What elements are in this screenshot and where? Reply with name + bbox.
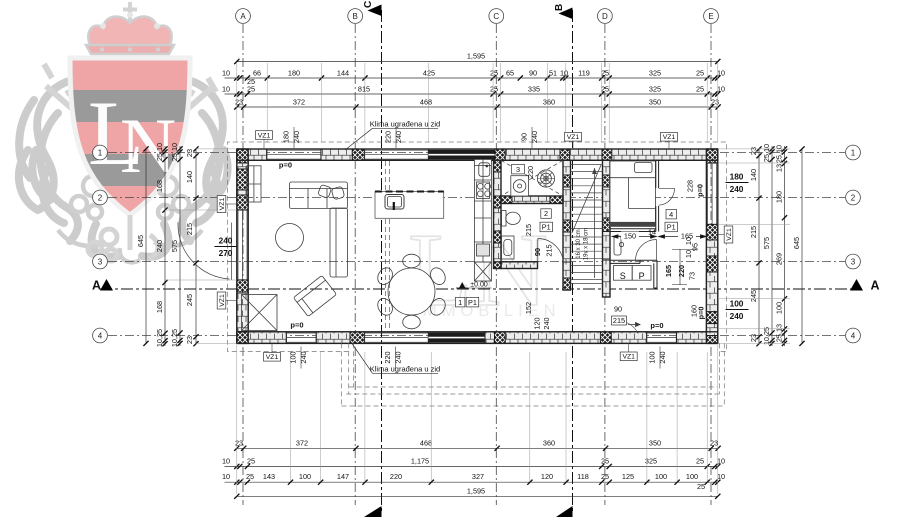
svg-text:180: 180	[730, 172, 744, 182]
svg-text:100: 100	[289, 351, 298, 363]
svg-text:10: 10	[222, 472, 230, 481]
svg-text:10: 10	[717, 69, 725, 78]
svg-text:215: 215	[613, 316, 625, 325]
svg-text:C: C	[363, 1, 374, 8]
svg-text:2: 2	[98, 194, 103, 203]
svg-text:25: 25	[601, 456, 609, 465]
svg-text:1,175: 1,175	[411, 456, 429, 465]
svg-text:815: 815	[358, 85, 370, 94]
svg-text:3: 3	[98, 258, 103, 267]
svg-text:23: 23	[749, 147, 758, 155]
svg-text:p=0: p=0	[696, 184, 705, 197]
svg-text:25: 25	[696, 85, 704, 94]
svg-text:220: 220	[384, 131, 393, 143]
svg-text:4: 4	[98, 332, 103, 341]
svg-text:180: 180	[282, 131, 291, 143]
svg-text:25: 25	[696, 456, 704, 465]
svg-text:23: 23	[185, 336, 194, 344]
svg-text:1,595: 1,595	[467, 52, 485, 61]
svg-text:14: 14	[648, 228, 656, 237]
svg-text:D: D	[602, 12, 608, 21]
svg-text:A: A	[871, 279, 880, 293]
svg-text:350: 350	[649, 438, 661, 447]
svg-text:325: 325	[649, 69, 661, 78]
svg-text:25,10: 25,10	[775, 145, 784, 163]
svg-text:645: 645	[792, 237, 801, 249]
svg-text:360: 360	[543, 438, 555, 447]
svg-text:575: 575	[762, 237, 771, 249]
svg-text:468: 468	[420, 98, 432, 107]
svg-text:65: 65	[506, 69, 514, 78]
svg-text:143: 143	[263, 472, 275, 481]
svg-text:4: 4	[669, 210, 673, 219]
svg-text:19v x 18 cm: 19v x 18 cm	[584, 228, 590, 260]
svg-text:VZ1: VZ1	[726, 228, 733, 241]
svg-text:p=0: p=0	[650, 321, 663, 330]
svg-text:VZ1: VZ1	[219, 198, 226, 211]
svg-text:51: 51	[549, 69, 557, 78]
svg-text:1: 1	[458, 298, 462, 307]
svg-text:165: 165	[664, 265, 673, 277]
svg-text:220: 220	[390, 472, 402, 481]
svg-text:N: N	[120, 102, 176, 189]
svg-text:245: 245	[749, 290, 758, 302]
svg-text:425: 425	[423, 69, 435, 78]
svg-text:335: 335	[528, 85, 540, 94]
svg-text:245: 245	[185, 294, 194, 306]
svg-text:10: 10	[684, 250, 693, 258]
svg-text:228: 228	[685, 180, 694, 192]
svg-text:±0.00: ±0.00	[470, 282, 488, 289]
svg-text:240: 240	[394, 131, 403, 143]
svg-text:3: 3	[516, 165, 520, 174]
svg-text:240: 240	[299, 351, 308, 363]
svg-text:4: 4	[851, 332, 856, 341]
svg-text:220: 220	[677, 265, 686, 277]
svg-text:P1: P1	[542, 223, 551, 232]
svg-text:10,25: 10,25	[762, 327, 771, 345]
svg-text:468: 468	[420, 438, 432, 447]
svg-text:240: 240	[730, 311, 744, 321]
svg-text:125: 125	[622, 472, 634, 481]
svg-text:100: 100	[686, 472, 698, 481]
svg-text:C: C	[493, 12, 499, 21]
svg-text:A: A	[92, 279, 101, 293]
svg-text:215: 215	[524, 224, 533, 236]
svg-text:10: 10	[717, 472, 725, 481]
svg-text:25: 25	[601, 472, 609, 481]
svg-text:VZ1: VZ1	[219, 294, 226, 307]
svg-text:P: P	[639, 271, 645, 281]
svg-text:25: 25	[490, 85, 498, 94]
svg-text:100: 100	[299, 472, 311, 481]
svg-text:10: 10	[717, 456, 725, 465]
svg-text:372: 372	[296, 438, 308, 447]
svg-text:p=0: p=0	[279, 161, 292, 170]
svg-text:10: 10	[684, 237, 693, 245]
svg-text:23: 23	[235, 98, 243, 107]
svg-text:119: 119	[578, 69, 590, 78]
svg-text:180: 180	[775, 191, 784, 203]
svg-text:100: 100	[655, 472, 667, 481]
svg-text:10,25: 10,25	[155, 329, 164, 347]
svg-text:100: 100	[775, 302, 784, 314]
svg-text:100: 100	[648, 351, 657, 363]
svg-text:269: 269	[775, 253, 784, 265]
svg-text:575: 575	[170, 240, 179, 252]
svg-text:152: 152	[524, 302, 533, 314]
svg-text:VZ1: VZ1	[567, 134, 580, 141]
svg-text:215: 215	[749, 226, 758, 238]
svg-text:90: 90	[533, 248, 542, 256]
svg-text:10: 10	[560, 69, 568, 78]
svg-text:P1: P1	[667, 223, 676, 232]
svg-text:23: 23	[749, 334, 758, 342]
svg-text:16 x 30 cm: 16 x 30 cm	[576, 229, 582, 258]
svg-text:25: 25	[247, 456, 255, 465]
svg-text:25: 25	[247, 85, 255, 94]
svg-text:90: 90	[520, 133, 529, 141]
svg-text:25: 25	[601, 69, 609, 78]
svg-text:100: 100	[730, 299, 744, 309]
svg-text:VZ1: VZ1	[258, 132, 271, 139]
svg-text:140: 140	[749, 169, 758, 181]
svg-text:25,10: 25,10	[762, 144, 771, 162]
svg-text:25: 25	[246, 472, 254, 481]
svg-text:23: 23	[185, 149, 194, 157]
svg-text:215: 215	[545, 244, 554, 256]
svg-text:220: 220	[526, 166, 535, 178]
svg-text:25,10: 25,10	[170, 143, 179, 161]
svg-text:168: 168	[155, 180, 164, 192]
svg-text:1,595: 1,595	[467, 486, 485, 495]
svg-text:327: 327	[472, 472, 484, 481]
svg-text:25: 25	[697, 482, 705, 491]
svg-text:23: 23	[710, 438, 718, 447]
svg-text:E: E	[708, 12, 713, 21]
svg-text:P1: P1	[468, 298, 477, 307]
svg-text:220: 220	[383, 351, 392, 363]
svg-text:A: A	[240, 12, 246, 21]
svg-text:270: 270	[219, 248, 233, 258]
svg-text:B: B	[554, 4, 565, 11]
svg-text:VZ1: VZ1	[266, 354, 279, 361]
svg-text:160: 160	[690, 305, 699, 317]
svg-text:120: 120	[541, 472, 553, 481]
svg-text:p=0: p=0	[290, 321, 303, 330]
svg-text:240: 240	[394, 351, 403, 363]
svg-text:10: 10	[222, 69, 230, 78]
svg-text:240: 240	[530, 131, 539, 143]
svg-text:240: 240	[155, 240, 164, 252]
svg-text:118: 118	[577, 472, 589, 481]
svg-text:13: 13	[775, 164, 784, 172]
svg-text:1: 1	[98, 149, 103, 158]
svg-text:168: 168	[155, 301, 164, 313]
svg-text:VZ1: VZ1	[622, 354, 635, 361]
svg-text:240: 240	[658, 351, 667, 363]
svg-text:25,10: 25,10	[155, 143, 164, 161]
svg-text:240: 240	[730, 184, 744, 194]
svg-text:10: 10	[222, 456, 230, 465]
svg-text:23: 23	[235, 438, 243, 447]
svg-text:IMMOBILIEN: IMMOBILIEN	[413, 302, 560, 320]
svg-text:10: 10	[222, 85, 230, 94]
svg-text:147: 147	[337, 472, 349, 481]
svg-text:90: 90	[529, 69, 537, 78]
svg-text:180: 180	[288, 69, 300, 78]
svg-text:25: 25	[696, 69, 704, 78]
svg-text:2: 2	[851, 194, 856, 203]
svg-text:150: 150	[624, 232, 636, 241]
svg-text:10,25: 10,25	[170, 329, 179, 347]
svg-text:215: 215	[185, 223, 194, 235]
svg-text:144: 144	[337, 69, 349, 78]
svg-text:90: 90	[614, 305, 622, 314]
svg-text:2: 2	[544, 209, 548, 218]
svg-text:VZ1: VZ1	[663, 134, 676, 141]
svg-text:Klima ugrađena u zid: Klima ugrađena u zid	[370, 120, 440, 129]
svg-text:S: S	[620, 271, 626, 281]
svg-text:3: 3	[851, 258, 856, 267]
svg-text:360: 360	[543, 98, 555, 107]
svg-text:325: 325	[649, 85, 661, 94]
svg-text:25,13: 25,13	[775, 324, 784, 342]
svg-text:120: 120	[533, 317, 542, 329]
svg-text:Klima ugrađena u zid: Klima ugrađena u zid	[370, 365, 440, 374]
svg-text:240: 240	[542, 317, 551, 329]
svg-text:25: 25	[490, 69, 498, 78]
svg-text:B: B	[353, 12, 358, 21]
svg-text:1: 1	[851, 149, 856, 158]
svg-text:240: 240	[292, 131, 301, 143]
svg-text:240: 240	[219, 236, 233, 246]
svg-text:140: 140	[185, 171, 194, 183]
svg-text:350: 350	[649, 98, 661, 107]
svg-text:372: 372	[293, 98, 305, 107]
svg-text:25: 25	[601, 85, 609, 94]
svg-text:10: 10	[717, 85, 725, 94]
svg-text:645: 645	[136, 235, 145, 247]
svg-text:73: 73	[688, 272, 697, 280]
